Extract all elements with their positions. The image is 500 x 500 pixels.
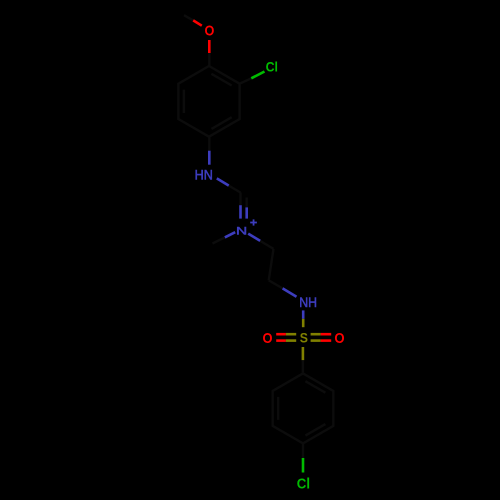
ring 2 inner aromatic line b: [305, 424, 325, 436]
svg-text:N: N: [236, 225, 247, 237]
wire: N+-methyl bond carbon half (dark): [213, 237, 225, 243]
wire: C=N+ double bond offset line nitrogen half (blue): [245, 207, 248, 218]
svg-text:O: O: [205, 23, 215, 39]
wire: N+-methyl bond nitrogen half (blue): [225, 232, 235, 237]
wire: right S=O lower line olive half: [311, 339, 321, 342]
svg-text:O: O: [334, 331, 345, 347]
svg-text:HN: HN: [195, 168, 213, 183]
wire: NH-S bond nitrogen half (blue): [302, 310, 305, 318]
wire: left S=O lower line olive half: [286, 339, 296, 342]
svg-text:Cl: Cl: [266, 60, 278, 75]
wire: right S=O upper line red half: [321, 333, 332, 336]
wire: S-ring2 bond carbon half (dark): [302, 360, 304, 373]
benzene ring 2 (bottom, dark carbon): [273, 373, 334, 443]
wire: left S=O upper line olive half: [286, 333, 296, 336]
wire: O-ring bond oxygen half (red): [208, 40, 211, 53]
svg-text:Cl: Cl: [297, 476, 310, 493]
ring 1 inner aromatic line c: [183, 90, 185, 113]
wire: C=N+ double bond main line carbon half (dark): [239, 193, 241, 206]
wire: ring-NH bond carbon half (dark): [208, 137, 210, 151]
ring 2 inner aromatic line c: [277, 397, 279, 420]
wire: right S=O upper line olive half: [311, 333, 321, 336]
wire: CH2-CH2 bond (dark): [269, 249, 274, 280]
wire: left S=O upper line red half: [276, 333, 286, 336]
wire: C=N+ double bond main line nitrogen half (blue): [239, 205, 242, 218]
wire: methyl-O bond carbon half (dark): [184, 15, 193, 20]
wire: CH2-NH bond nitrogen half (blue): [283, 288, 297, 296]
wire: S-ring2 bond sulfur half (olive): [302, 347, 305, 360]
wire: right S=O lower line red half: [321, 339, 332, 342]
wire: HN-C bond carbon half (dark): [229, 186, 241, 193]
wire: C=N+ double bond offset line carbon half (dark): [245, 198, 247, 208]
wire: ring2-Cl bond chlorine half (green): [302, 458, 305, 473]
charge plus sign: [250, 219, 257, 225]
svg-text:O: O: [263, 329, 273, 346]
benzene ring 1 (top, dark carbon): [178, 66, 239, 137]
wire: N+-CH2 bond nitrogen half (blue): [248, 234, 260, 241]
wire: ring2-Cl bond carbon half (dark): [302, 443, 304, 458]
wire: ring-Cl bond chlorine half (green): [251, 72, 264, 79]
wire: methyl-O bond oxygen half (red): [193, 20, 202, 25]
wire: O-ring bond carbon half (dark): [208, 53, 210, 66]
wire: CH2-NH bond carbon half (dark): [269, 280, 283, 288]
wire: ring-Cl bond carbon half (dark): [240, 78, 252, 83]
wire: HN-C bond nitrogen half (blue): [217, 178, 229, 185]
wire: left S=O lower line red half: [276, 339, 286, 342]
ring 1 inner aromatic line a: [211, 74, 231, 86]
svg-text:NH: NH: [299, 295, 317, 310]
wire: ring-NH bond nitrogen half (blue): [208, 151, 211, 165]
wire: NH-S bond sulfur half (olive): [302, 319, 305, 327]
ring 2 inner aromatic line a: [305, 381, 325, 393]
svg-text:S: S: [300, 330, 308, 346]
wire: N+-CH2 bond carbon half (dark): [260, 241, 273, 249]
ring 1 inner aromatic line b: [212, 117, 232, 129]
